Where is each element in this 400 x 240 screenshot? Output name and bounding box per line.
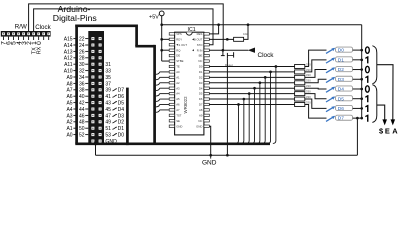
svg-text:STO: STO (197, 43, 204, 47)
svg-text:D7: D7 (199, 103, 203, 107)
svg-text:R IN: R IN (197, 48, 203, 52)
svg-text:43: 43 (105, 101, 111, 107)
junction LED D6 rail (360, 107, 363, 110)
svg-text:RES: RES (197, 32, 203, 36)
svg-text:46: 46 (79, 113, 85, 119)
svg-text:52: 52 (79, 133, 85, 139)
wire resistor R8 to LED D7 (305, 104, 327, 118)
wire LED D1 to rail (353, 59, 362, 61)
svg-text:A1: A1 (66, 126, 72, 132)
svg-text:Clock: Clock (35, 24, 51, 31)
LED D0 designator box (336, 47, 353, 52)
svg-text:47: 47 (105, 113, 111, 119)
junction LED D2 rail (360, 68, 363, 71)
svg-text:DE: DE (176, 54, 180, 58)
svg-text:A0: A0 (66, 133, 72, 139)
wire J2 down to GND rail (95, 143, 97, 156)
svg-text:31: 31 (105, 62, 111, 68)
svg-text:A3: A3 (66, 113, 72, 119)
wire resistor R7 to LED D6 (305, 99, 327, 108)
svg-text:A5: A5 (176, 97, 180, 101)
svg-text:A7: A7 (66, 88, 72, 94)
wire resistor R5 to LED D4 (305, 87, 327, 90)
svg-text:A2: A2 (176, 81, 180, 85)
svg-text:BE: BE (199, 54, 203, 58)
LED D6 designator box (336, 105, 353, 110)
bus frame top edge (75, 24, 136, 27)
wire LED common rail (361, 25, 363, 118)
svg-text:E: E (385, 127, 390, 136)
svg-text:53: 53 (105, 133, 111, 139)
svg-text:R/W: R/W (15, 23, 27, 30)
arrow to E (382, 119, 387, 125)
junction +5V rail (160, 23, 163, 26)
svg-text:A1: A1 (176, 75, 180, 79)
svg-text:35: 35 (105, 75, 111, 81)
wire LED D0 to rail (353, 49, 362, 51)
pushbutton S1 left contact (221, 55, 225, 57)
svg-text:D0: D0 (199, 65, 203, 69)
wire LED D3 to rail (353, 78, 362, 80)
svg-text:1 OUT: 1 OUT (179, 43, 188, 47)
svg-text:D0: D0 (338, 48, 344, 54)
svg-text:GND: GND (176, 124, 182, 128)
wire resistor R2 to LED D1 (305, 60, 327, 72)
bus entries with labels D7-D0 at J2 (112, 89, 117, 91)
svg-text:A9: A9 (199, 113, 203, 117)
svg-text:28: 28 (79, 56, 85, 62)
svg-text:D2: D2 (199, 75, 203, 79)
svg-text:B OUT: B OUT (194, 37, 203, 41)
labels bit values 01010111 (366, 47, 370, 53)
wire resistor R6 to LED D5 (305, 94, 327, 99)
svg-text:D2: D2 (118, 120, 125, 126)
svg-text:$: $ (379, 127, 383, 136)
junction LED D5 rail (360, 97, 363, 100)
LED D4 symbol (326, 87, 335, 92)
svg-text:D5: D5 (118, 101, 125, 107)
wire +5V stem down to IC pins (161, 16, 163, 61)
LED D3 designator box (336, 76, 353, 81)
wire clock net at IC pin R3 (209, 49, 248, 51)
junction LED D7 rail (360, 117, 363, 120)
svg-text:A15: A15 (64, 37, 73, 43)
svg-text:+5V: +5V (149, 14, 159, 20)
junction IC GND rail (209, 154, 212, 157)
connector J1 pin legs (3, 37, 5, 40)
connector J1 Arduino Uno digital pin strip (1, 31, 51, 37)
svg-text:330: 330 (306, 95, 311, 99)
svg-text:D3: D3 (338, 77, 344, 83)
junction LED D3 rail (360, 78, 363, 81)
wire clock node down to button (222, 50, 224, 55)
svg-text:33: 33 (105, 69, 111, 75)
pushbutton S1 plates and actuator (226, 53, 228, 58)
svg-text:D4: D4 (338, 87, 344, 93)
svg-text:SE: SE (176, 119, 180, 123)
junction LED D0 rail (360, 49, 363, 52)
GND label tick (210, 155, 212, 158)
svg-text:30: 30 (79, 62, 85, 68)
junction LED D4 rail (360, 88, 363, 91)
resistor R9 pullup (234, 37, 244, 41)
svg-text:330: 330 (306, 79, 311, 83)
svg-text:330: 330 (306, 68, 311, 72)
svg-text:10k: 10k (243, 32, 248, 36)
LED D0 symbol (326, 48, 335, 53)
LED D1 designator box (336, 57, 353, 62)
svg-text:Clock: Clock (258, 52, 275, 59)
svg-text:22: 22 (79, 37, 85, 43)
svg-text:D1: D1 (199, 70, 203, 74)
svg-text:A9: A9 (66, 75, 72, 81)
junction pullup rail (247, 23, 250, 26)
brace high nibble (372, 85, 376, 123)
svg-text:D3: D3 (118, 113, 125, 119)
svg-text:A11: A11 (64, 62, 73, 68)
wire resistor R4 to LED D3 (305, 79, 327, 83)
LED D2 designator box (336, 67, 353, 72)
wire IC GND pin down to rail (209, 126, 210, 155)
wire LED D2 to rail (353, 69, 362, 71)
svg-text:49: 49 (105, 120, 111, 126)
wire +5V to IC pin L1 (162, 38, 170, 40)
svg-text:26: 26 (79, 49, 85, 55)
svg-text:44: 44 (79, 107, 85, 113)
svg-text:A: A (392, 127, 398, 136)
svg-text:D6: D6 (199, 97, 203, 101)
svg-text:36: 36 (79, 81, 85, 87)
wire Clock from J1 pin over the top to IC pin R2 (34, 9, 213, 45)
bus entries to IC IC1 left pins (156, 72, 160, 74)
LED D7 symbol (326, 116, 335, 121)
svg-text:A8: A8 (66, 81, 72, 87)
svg-text:39: 39 (105, 88, 111, 94)
svg-text:40: 40 (79, 94, 85, 100)
junction button GND rail (226, 154, 229, 157)
svg-text:330: 330 (306, 90, 311, 94)
bus vertical left of IC (153, 45, 156, 144)
svg-text:42: 42 (79, 101, 85, 107)
svg-text:D7: D7 (338, 116, 344, 122)
annotation line high nibble to E (377, 105, 385, 120)
svg-text:A0: A0 (176, 70, 180, 74)
svg-text:IC1: IC1 (188, 27, 196, 33)
svg-text:48: 48 (79, 120, 85, 126)
svg-text:330: 330 (306, 73, 311, 77)
wire IC pin R1 to pullup resistor (209, 38, 233, 40)
svg-text:GND: GND (202, 159, 217, 166)
bus frame left edge (75, 25, 78, 144)
LED D2 symbol (326, 68, 335, 73)
svg-text:A14: A14 (64, 43, 73, 49)
bus frame step down (135, 25, 138, 47)
junction +5V L3 (160, 49, 163, 52)
svg-text:0: 0 (36, 41, 43, 45)
junction +5V L1 (160, 38, 163, 41)
bus riser below J2 (94, 142, 97, 146)
svg-text:VPS: VPS (176, 32, 182, 36)
wire LED D6 to rail (353, 107, 362, 109)
svg-text:A5: A5 (66, 101, 72, 107)
LED D5 designator box (336, 96, 353, 101)
wire LED D5 to rail (353, 98, 362, 100)
svg-text:WR8022: WR8022 (183, 96, 188, 114)
LED D1 symbol (326, 58, 335, 63)
svg-text:34: 34 (79, 75, 85, 81)
svg-text:51: 51 (105, 126, 111, 132)
svg-text:24: 24 (79, 43, 85, 49)
svg-text:D2: D2 (338, 67, 344, 73)
wire pullup resistor to +5V rail (244, 25, 248, 40)
junction LED D1 rail (360, 58, 363, 61)
svg-text:NC: NC (198, 119, 202, 123)
IC IC1 pin stubs (169, 33, 174, 35)
matrix crossover verticals with junctions and bus entries (236, 104, 239, 143)
connector J1 pin pads (2, 32, 5, 35)
svg-text:NC: NC (198, 59, 202, 63)
svg-text:A4: A4 (66, 107, 72, 113)
LED D6 symbol (326, 107, 335, 112)
svg-text:A13: A13 (64, 49, 73, 55)
svg-text:A3: A3 (176, 86, 180, 90)
svg-text:A10: A10 (64, 69, 73, 75)
wire R/W from J1 pin over the top to IC pin R3 column (29, 4, 224, 50)
svg-text:TST: TST (176, 113, 182, 117)
svg-text:330: 330 (306, 100, 311, 104)
svg-text:45: 45 (105, 107, 111, 113)
bus riser from J2 data pins (126, 88, 129, 146)
brace low nibble (372, 46, 376, 84)
svg-text:D5: D5 (338, 96, 344, 102)
svg-text:D4: D4 (199, 86, 203, 90)
svg-text:32: 32 (79, 69, 85, 75)
power terminal +5V (159, 11, 164, 16)
LED D7 designator box (336, 115, 353, 120)
svg-text:D0: D0 (118, 133, 125, 139)
wire +5V rail across top (162, 24, 362, 26)
clock direction arrow (248, 47, 255, 52)
svg-text:A6: A6 (176, 103, 180, 107)
svg-text:38: 38 (79, 88, 85, 94)
svg-text:D1: D1 (338, 57, 344, 63)
svg-text:RDY: RDY (176, 37, 182, 41)
wire GND rail across bottom (96, 154, 358, 156)
LED D5 symbol (326, 97, 335, 102)
junction R0 rail (217, 23, 220, 26)
svg-text:D5: D5 (199, 92, 203, 96)
svg-text:A7: A7 (176, 108, 180, 112)
wires IC data pins to resistors (209, 65, 294, 67)
svg-text:D1: D1 (118, 126, 125, 132)
wire GND riser at right (356, 118, 358, 155)
IC IC1 notch (186, 32, 192, 35)
annotation line low nibble to A (377, 65, 393, 120)
junction D7 GND riser (356, 117, 359, 120)
svg-text:GND: GND (196, 124, 202, 128)
svg-text:RX: RX (37, 46, 43, 54)
svg-text:A8: A8 (199, 108, 203, 112)
connector J2 pin pads (91, 37, 94, 40)
svg-text:330: 330 (306, 84, 311, 88)
wire resistor R3 to LED D2 (305, 70, 327, 78)
svg-text:37: 37 (105, 81, 111, 87)
svg-text:TE: TE (176, 65, 180, 69)
connector J2 Arduino Mega pin header strip (88, 31, 104, 143)
svg-text:41: 41 (105, 94, 111, 100)
svg-text:A4: A4 (176, 92, 180, 96)
arrow to A (391, 119, 396, 125)
bus frame step right (135, 45, 154, 48)
svg-text:D3: D3 (199, 81, 203, 85)
resistors R1-R8 330 ohm (295, 64, 305, 68)
wire LED D4 to rail (353, 88, 362, 90)
svg-text:D6: D6 (118, 94, 125, 100)
wire IC pin R0 to +5V rail (209, 25, 218, 34)
svg-text:D7: D7 (118, 88, 125, 94)
svg-text:STBE: STBE (176, 59, 183, 63)
LED D3 symbol (326, 77, 335, 82)
wire +5V to IC pin L5 (162, 60, 170, 62)
svg-text:A6: A6 (66, 94, 72, 100)
junction pullup node (226, 38, 229, 41)
IC IC1 body (175, 32, 204, 135)
svg-text:50: 50 (79, 126, 85, 132)
wire LED D7 to rail (353, 117, 362, 119)
LED D4 designator box (336, 86, 353, 91)
wire resistor R1 to LED D0 (305, 50, 327, 66)
svg-text:A12: A12 (64, 56, 73, 62)
svg-text:Digital-Pins: Digital-Pins (53, 13, 98, 23)
wire button to GND rail (226, 58, 228, 155)
junction clock node (222, 49, 225, 52)
svg-text:D4: D4 (118, 107, 125, 113)
bus bottom horizontal (75, 142, 270, 145)
svg-text:D6: D6 (338, 106, 344, 112)
wire +5V to IC pin L3 (162, 49, 170, 51)
svg-text:A2: A2 (66, 120, 72, 126)
